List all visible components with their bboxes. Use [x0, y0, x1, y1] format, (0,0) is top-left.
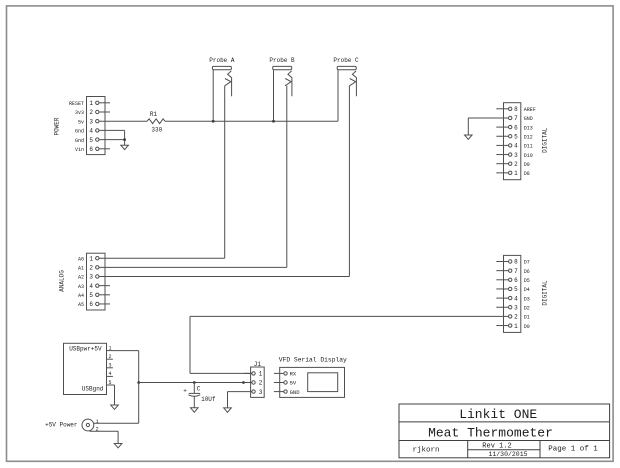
svg-text:A4: A4 — [78, 293, 84, 299]
wire USB pin5 to ground — [113, 385, 115, 405]
label J1 — [254, 361, 262, 368]
svg-text:5: 5 — [89, 137, 93, 144]
pin 4 ANALOG (A3) — [78, 283, 99, 290]
svg-text:3: 3 — [89, 274, 93, 281]
wire Probe A to analog — [99, 86, 225, 258]
svg-text:1: 1 — [89, 100, 93, 107]
label ANALOG — [59, 270, 66, 292]
svg-text:C: C — [197, 386, 201, 393]
label Probe A — [209, 57, 235, 64]
wire stub DIGITAL J2 pin 3 — [496, 154, 508, 156]
svg-text:D1: D1 — [524, 315, 530, 321]
ground DIGITAL J2 — [465, 135, 473, 139]
pin 5 DIGITAL J2 (D12) — [509, 133, 533, 140]
ground USBgnd — [111, 405, 119, 409]
wire stub ANALOG pin 5 — [99, 294, 110, 296]
pin 7 DIGITAL J2 (GND) — [509, 115, 533, 122]
svg-text:1: 1 — [514, 323, 518, 330]
svg-text:D3: D3 — [524, 296, 530, 302]
svg-text:D7: D7 — [524, 260, 530, 266]
thermistor probe Probe B — [273, 66, 292, 96]
svg-text:DIGITAL: DIGITAL — [542, 127, 549, 153]
svg-text:1: 1 — [96, 419, 99, 425]
svg-text:3: 3 — [259, 389, 263, 396]
svg-text:D0: D0 — [524, 324, 530, 330]
svg-text:Page 1 of 1: Page 1 of 1 — [548, 446, 598, 454]
svg-text:A1: A1 — [78, 266, 84, 272]
svg-text:A0: A0 — [78, 256, 84, 262]
title Linkit ONE — [459, 407, 537, 422]
screen of VFD — [308, 373, 338, 392]
connector DIGITAL J2 — [504, 103, 521, 180]
wire stub DIGITAL J2 pin 4 — [496, 144, 508, 146]
title Meat Thermometer — [428, 425, 553, 440]
ground jack — [114, 444, 122, 448]
label +5V Power — [45, 421, 78, 428]
svg-text:6: 6 — [514, 124, 518, 131]
svg-text:2: 2 — [89, 109, 93, 116]
svg-text:D8: D8 — [524, 171, 530, 177]
svg-text:5V: 5V — [290, 380, 297, 387]
wire stub DIGITAL J2 pin 8 — [496, 108, 508, 110]
pin 6 DIGITAL J3 (D5) — [509, 277, 530, 284]
pin 4 POWER (Gnd) — [75, 128, 99, 135]
svg-text:A3: A3 — [78, 284, 84, 290]
svg-text:7: 7 — [514, 115, 518, 122]
thermistor probe Probe C — [337, 66, 356, 96]
svg-text:VFD Serial Display: VFD Serial Display — [279, 357, 347, 364]
svg-text:11/30/2015: 11/30/2015 — [488, 451, 527, 458]
svg-text:D5: D5 — [524, 278, 530, 284]
pin 5 ANALOG (A4) — [78, 292, 99, 299]
label USBgnd — [82, 386, 104, 393]
svg-text:3v3: 3v3 — [75, 110, 84, 116]
wire stub DIGITAL J2 pin 1 — [496, 172, 508, 174]
label R1 — [150, 111, 158, 118]
svg-text:Rev 1.2: Rev 1.2 — [482, 443, 511, 451]
capacitor C — [188, 383, 200, 408]
connector J1 — [251, 367, 265, 397]
pin 6 ANALOG (A5) — [78, 301, 99, 308]
resistor R1 — [147, 119, 165, 124]
junction bus Probe A — [212, 120, 215, 123]
svg-text:USBgnd: USBgnd — [82, 386, 104, 393]
wire stub DIGITAL J2 pin 6 — [496, 126, 508, 128]
module USB power — [64, 343, 107, 394]
wire POWER pin4 to ground — [99, 130, 125, 139]
pin 3 POWER (5v) — [78, 118, 99, 125]
pin 4 DIGITAL J3 (D3) — [509, 295, 530, 302]
pin 3 J1 — [252, 389, 263, 396]
wire stub DIGITAL J3 pin 4 — [496, 297, 508, 299]
svg-text:7: 7 — [514, 268, 518, 275]
svg-text:GND: GND — [290, 389, 301, 396]
pin 2 J1 — [252, 380, 263, 387]
ground capacitor — [191, 408, 199, 412]
svg-text:4: 4 — [89, 128, 93, 135]
svg-text:R1: R1 — [150, 111, 158, 118]
svg-text:3: 3 — [89, 118, 93, 125]
wire Probe B left pin to 5v bus — [273, 70, 275, 122]
pin 5 DIGITAL J3 (D4) — [509, 286, 530, 293]
pin 8 DIGITAL J2 (AREF) — [509, 106, 536, 113]
wire D1 to J1 pin1 — [190, 316, 509, 373]
svg-text:D12: D12 — [524, 134, 533, 140]
svg-text:3: 3 — [514, 152, 518, 159]
pin 5 USB — [107, 380, 113, 386]
pin 4 USB — [107, 371, 113, 377]
wire stub DIGITAL J3 pin 5 — [496, 288, 508, 290]
svg-text:A2: A2 — [78, 275, 84, 281]
wire stub ANALOG pin 6 — [99, 303, 110, 305]
svg-text:Linkit ONE: Linkit ONE — [459, 407, 537, 422]
svg-text:2: 2 — [514, 314, 518, 321]
svg-text:1: 1 — [108, 345, 111, 351]
wire stub J1 pin2 — [244, 382, 252, 384]
revision Rev 1.2 — [482, 443, 511, 451]
svg-text:D10: D10 — [524, 153, 533, 159]
svg-text:D13: D13 — [524, 125, 533, 131]
svg-text:6: 6 — [89, 146, 93, 153]
svg-text:J1: J1 — [254, 361, 262, 368]
svg-text:2: 2 — [514, 161, 518, 168]
wire stub DIGITAL J2 pin 5 — [496, 135, 508, 137]
svg-text:5v: 5v — [78, 119, 84, 125]
connector ANALOG — [87, 253, 106, 310]
svg-text:GND: GND — [524, 116, 533, 122]
module VFD Serial Display — [280, 367, 345, 397]
pin 3 DIGITAL J3 (D2) — [509, 304, 530, 311]
wire stub DIGITAL J2 pin 2 — [496, 163, 508, 165]
svg-text:10Uf: 10Uf — [201, 396, 216, 403]
wire POWER pin5 to ground — [99, 140, 125, 146]
page Page 1 of 1 — [548, 446, 598, 454]
junction POWER gnd — [123, 138, 126, 141]
svg-text:3: 3 — [514, 304, 518, 311]
pin 1 POWER (RESET) — [69, 100, 99, 107]
svg-text:AREF: AREF — [524, 107, 536, 113]
wire stub ANALOG pin 4 — [99, 285, 110, 287]
pin 2 jack — [96, 426, 99, 432]
wire stub DIGITAL J3 pin 7 — [496, 270, 508, 272]
svg-text:D4: D4 — [524, 287, 530, 293]
pin 5 POWER (Gnd) — [75, 137, 99, 144]
pin 3 DIGITAL J2 (D10) — [509, 152, 533, 159]
svg-text:5: 5 — [514, 286, 518, 293]
pin RX VFD — [274, 371, 297, 378]
label POWER — [54, 117, 61, 135]
wire POWER pin3 to R1 — [99, 120, 147, 122]
svg-text:2: 2 — [259, 380, 263, 387]
svg-text:6: 6 — [89, 301, 93, 308]
value 10Uf — [201, 396, 216, 403]
wire stub POWER pin 2 — [99, 111, 110, 113]
junction J1 pin2 stub — [242, 381, 245, 384]
wire stub POWER pin 6 — [99, 148, 110, 150]
pin 1 ANALOG (A0) — [78, 255, 99, 262]
svg-text:5: 5 — [108, 380, 111, 386]
thermistor probe Probe A — [212, 66, 231, 96]
svg-text:Vin: Vin — [75, 147, 84, 153]
wire J1 pin3 to ground — [228, 392, 252, 408]
svg-text:6: 6 — [514, 277, 518, 284]
pin 3 USB — [107, 363, 113, 369]
pin 7 DIGITAL J3 (D6) — [509, 268, 530, 275]
pin 5V VFD — [274, 380, 297, 387]
label Probe C — [333, 57, 359, 64]
wire stub DIGITAL J3 pin 1 — [496, 325, 508, 327]
wire Probe C to analog — [99, 86, 349, 277]
label USBpwr+5V — [69, 346, 102, 353]
ground POWER — [121, 145, 129, 149]
wire 5v bus R1 to Probe C — [165, 120, 338, 122]
wire Probe A left pin to 5v bus — [212, 70, 214, 122]
svg-text:8: 8 — [514, 106, 518, 113]
date 11/30/2015 — [488, 451, 527, 458]
svg-text:2: 2 — [108, 354, 111, 360]
svg-text:4: 4 — [514, 143, 518, 150]
label Probe B — [269, 57, 295, 64]
svg-text:5: 5 — [514, 133, 518, 140]
connector DIGITAL J3 — [504, 255, 521, 332]
wire stub DIGITAL J3 pin 8 — [496, 261, 508, 263]
value 330 — [151, 127, 162, 134]
svg-text:RX: RX — [290, 371, 297, 378]
svg-text:D11: D11 — [524, 144, 533, 150]
pin 2 DIGITAL J3 (D1) — [509, 314, 530, 321]
wire jack pin2 to ground — [90, 431, 119, 443]
wire +5V rail — [139, 382, 252, 384]
svg-text:4: 4 — [89, 283, 93, 290]
pin 2 DIGITAL J2 (D9) — [509, 161, 530, 168]
label DIGITAL J3 — [542, 280, 549, 306]
wire stub POWER pin 1 — [99, 102, 110, 104]
svg-text:RESET: RESET — [69, 101, 84, 107]
label DIGITAL J2 — [542, 127, 549, 153]
svg-text:Probe B: Probe B — [269, 57, 295, 64]
polarity + of C — [183, 388, 187, 395]
pin 6 DIGITAL J2 (D13) — [509, 124, 533, 131]
svg-text:USBpwr+5V: USBpwr+5V — [69, 346, 102, 353]
svg-text:330: 330 — [151, 127, 162, 134]
pin 2 ANALOG (A1) — [78, 265, 99, 272]
wire USB pin1 to +5V jack — [94, 351, 139, 424]
wire DIGITAL GND to ground — [468, 118, 508, 135]
svg-text:4: 4 — [108, 371, 111, 377]
label VFD Serial Display — [279, 357, 347, 364]
svg-text:A5: A5 — [78, 302, 84, 308]
svg-text:Meat Thermometer: Meat Thermometer — [428, 425, 553, 440]
pin 8 DIGITAL J3 (D7) — [509, 259, 530, 266]
svg-text:Probe C: Probe C — [333, 57, 359, 64]
junction +5V rail at USB feed — [137, 381, 140, 384]
svg-text:D9: D9 — [524, 162, 530, 168]
svg-text:2: 2 — [89, 265, 93, 272]
svg-text:1: 1 — [514, 170, 518, 177]
wire Probe C left pin to 5v bus — [337, 70, 339, 122]
svg-text:rjkorn: rjkorn — [412, 446, 439, 454]
label C — [197, 386, 201, 393]
author rjkorn — [412, 446, 439, 454]
svg-text:DIGITAL: DIGITAL — [542, 280, 549, 306]
wire Probe B to analog — [99, 86, 287, 268]
connector POWER — [87, 97, 106, 155]
svg-text:Gnd: Gnd — [75, 129, 84, 135]
title block — [399, 404, 610, 458]
pin 2 POWER (3v3) — [75, 109, 99, 116]
pin 1 DIGITAL J2 (D8) — [509, 170, 530, 177]
pin 1 jack — [96, 419, 99, 425]
pin 1 J1 — [252, 371, 263, 378]
svg-text:8: 8 — [514, 259, 518, 266]
svg-text:+: + — [183, 388, 187, 395]
wire stub DIGITAL J3 pin 3 — [496, 306, 508, 308]
pin 6 POWER (Vin) — [75, 146, 99, 153]
svg-text:4: 4 — [514, 295, 518, 302]
svg-text:1: 1 — [89, 255, 93, 262]
svg-text:D2: D2 — [524, 305, 530, 311]
svg-text:D6: D6 — [524, 269, 530, 275]
svg-text:1: 1 — [259, 371, 263, 378]
connector +5V Power jack — [82, 419, 94, 431]
pin 2 USB — [107, 354, 113, 360]
svg-text:POWER: POWER — [54, 117, 61, 135]
svg-text:Probe A: Probe A — [209, 57, 235, 64]
pin 1 DIGITAL J3 (D0) — [509, 323, 530, 330]
ground J1 pin3 — [224, 408, 232, 412]
junction capacitor tap — [193, 381, 196, 384]
pin 3 ANALOG (A2) — [78, 274, 99, 281]
svg-text:+5V Power: +5V Power — [45, 421, 78, 428]
wire stub DIGITAL J3 pin 6 — [496, 279, 508, 281]
svg-text:Gnd: Gnd — [75, 138, 84, 144]
svg-text:ANALOG: ANALOG — [59, 270, 66, 292]
svg-text:3: 3 — [108, 363, 111, 369]
pin GND VFD — [274, 389, 300, 396]
svg-text:5: 5 — [89, 292, 93, 299]
pin 1 USB — [107, 345, 113, 351]
pin 4 DIGITAL J2 (D11) — [509, 143, 533, 150]
junction bus Probe B — [272, 120, 275, 123]
wire stub J1 pin1 — [244, 372, 252, 374]
